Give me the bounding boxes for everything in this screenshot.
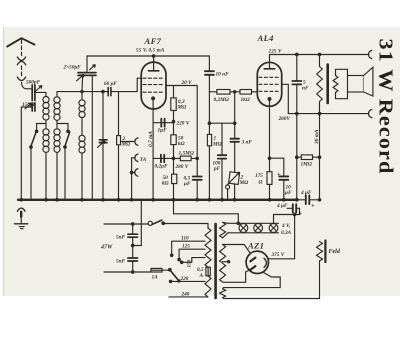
svg-text:31 W Record: 31 W Record: [375, 39, 396, 175]
wire mains line 1: [104, 223, 148, 225]
capacitor 4uF second: [287, 204, 300, 214]
label 220: [180, 276, 189, 282]
wire 5nF column to bus: [296, 114, 298, 200]
wire secondary to speaker: [336, 69, 348, 98]
AZ1 anode 1: [250, 258, 255, 262]
HV center tap: [223, 261, 230, 263]
AF7 anode plate: [148, 70, 158, 72]
svg-text:A: A: [199, 273, 204, 279]
AF7 grid 3 (dashed): [143, 91, 164, 93]
field coil Feld: [317, 242, 323, 262]
AL4 cathode: [268, 98, 271, 101]
label 3nF: [241, 140, 253, 146]
AL4 grid 2 (dashed): [259, 83, 280, 85]
AF7 cathode: [152, 97, 155, 100]
resistor 1MOhm bleeder: [297, 155, 320, 160]
svg-text:pF: pF: [213, 166, 221, 172]
label Feld: [329, 249, 341, 255]
svg-text:260V: 260V: [278, 116, 291, 122]
label 150 (rotated): [187, 259, 193, 267]
label 240: [181, 292, 190, 298]
label 125: [182, 244, 190, 250]
wire AF7 top cap: [152, 55, 155, 71]
svg-text:+: +: [277, 171, 281, 178]
label 110: [181, 236, 189, 242]
wire AF7 cathode to bus: [152, 98, 154, 199]
node mains line1 filter: [131, 223, 134, 226]
tuning capacitor C3b: [89, 73, 96, 76]
wire anode top line AF7: [87, 55, 209, 57]
wire screen 20V line: [166, 86, 197, 159]
svg-text:10 nF: 10 nF: [216, 72, 230, 78]
svg-text:2×50pF: 2×50pF: [63, 65, 82, 71]
resistor 50kOhm 2: [172, 174, 177, 183]
heater winding 4V: [220, 222, 228, 238]
node bleeder left: [296, 156, 299, 159]
AL4 anode plate: [264, 68, 274, 70]
resistor 0,3MOhm: [171, 98, 176, 111]
svg-text:220: 220: [180, 276, 189, 282]
fuse 1A: [151, 268, 162, 272]
svg-text:5nF: 5nF: [116, 235, 126, 241]
label 50kOhm 2: [162, 175, 169, 187]
svg-text:1kΩ: 1kΩ: [241, 97, 250, 103]
node coupling: [233, 91, 236, 94]
power transformer core: [214, 224, 217, 298]
wire band switch S2 tap: [57, 124, 68, 131]
jack TA top: [135, 138, 138, 145]
label plus 10uF: [277, 171, 281, 178]
wire AL4 cathode down: [269, 99, 271, 172]
AL4 grid 3 (dashed): [259, 90, 280, 92]
label 5nF: [302, 80, 309, 92]
label 10uF: [284, 185, 292, 197]
resistor 1MOhm grid: [207, 134, 211, 145]
label 4uF second: [276, 203, 288, 209]
wire Feld to bottom rail: [319, 261, 321, 299]
wire 3nF column: [234, 92, 236, 172]
wire switch to primary top: [163, 224, 208, 229]
wire fuse to selector arm: [162, 269, 169, 271]
label 1MOhm bleeder: [301, 162, 312, 168]
label 47W: [100, 245, 113, 251]
jack TA mid: [132, 154, 138, 161]
scan left edge: [3, 27, 5, 296]
wire band switch S1 tap: [37, 124, 46, 131]
svg-text:1A: 1A: [152, 275, 159, 281]
label 5nF filter 1: [116, 235, 126, 241]
speaker terminal bottom: [369, 110, 372, 118]
svg-text:μF: μF: [183, 181, 191, 187]
label plus first: [311, 203, 315, 210]
arrow tuning cap b: [90, 65, 96, 70]
potentiometer 2MOhm volume: [226, 172, 240, 189]
grid wire AF7: [57, 78, 141, 91]
svg-text:nF: nF: [302, 86, 309, 92]
tube AF7 envelope: [141, 62, 166, 109]
label 50kOhm screen: [178, 136, 185, 148]
svg-text:MΩ: MΩ: [212, 141, 222, 147]
svg-text:5nF: 5nF: [116, 259, 126, 265]
grid trimmer capacitor: [98, 140, 108, 148]
svg-text:150: 150: [187, 259, 193, 267]
output transformer primary: [317, 55, 323, 114]
trimmer capacitor 500pF: [32, 85, 42, 101]
label 280V: [175, 164, 189, 170]
bus junction dots: [20, 199, 298, 202]
svg-text:240: 240: [181, 292, 190, 298]
svg-text:1MΩ: 1MΩ: [301, 162, 312, 168]
AZ1 anode 2: [250, 266, 255, 270]
tap 125: [179, 249, 205, 259]
fuse 0,5A: [206, 267, 210, 276]
label 55V 0,5mA: [136, 48, 165, 54]
svg-text:1,5MΩ: 1,5MΩ: [179, 151, 194, 157]
svg-text:36 mA: 36 mA: [314, 129, 320, 145]
contact 110: [170, 254, 173, 256]
label 0,3MOhm: [177, 99, 187, 111]
svg-text:MΩ: MΩ: [239, 180, 249, 186]
svg-text:AF7: AF7: [144, 36, 162, 46]
wire antenna to C1: [22, 83, 32, 89]
svg-text:175: 175: [255, 173, 263, 179]
wire AL4 screen tap: [282, 84, 289, 113]
wire S2 to bus: [64, 148, 66, 200]
node top line primary: [318, 53, 321, 56]
AF7 grid 2 (dashed): [143, 84, 164, 86]
selector arm: [169, 268, 180, 282]
label 375V: [271, 252, 285, 258]
svg-text:47W: 47W: [100, 245, 113, 251]
wire top line to tuning cap: [86, 56, 88, 72]
label 31 W Record: [375, 39, 396, 175]
svg-text:0,2MΩ: 0,2MΩ: [214, 97, 229, 103]
wire coupling row: [209, 91, 257, 93]
field coil core: [324, 241, 326, 263]
capacitor 10uF: [279, 176, 288, 199]
capacitor 0,5uF: [193, 158, 202, 199]
wire anode top line AL4: [270, 54, 369, 56]
wire antenna lead-in (dashed): [21, 40, 23, 56]
power transformer primary lower: [205, 276, 211, 297]
label 1MOhm grid: [212, 136, 222, 148]
wire filter midpoint to chassis: [133, 200, 142, 246]
label 4V 0,3A: [281, 223, 292, 236]
band switch S1: [30, 130, 38, 148]
label 260V: [278, 116, 291, 122]
tap 220: [171, 280, 205, 282]
node jumper right: [233, 122, 236, 125]
label 1,5MOhm: [179, 151, 194, 157]
node rail: [237, 222, 240, 225]
wire arrester to coupler (dashed): [21, 66, 23, 76]
node grid line / trimmer: [102, 90, 105, 93]
capacitor 100pF: [218, 155, 227, 158]
earth ground: [15, 224, 28, 229]
wire 375V riser row: [274, 215, 300, 259]
node 280V row left: [172, 157, 175, 160]
capacitor 5nF line filter 2: [128, 258, 138, 261]
label 150pF: [22, 102, 37, 108]
label 220V: [176, 120, 190, 126]
svg-text:375 V: 375 V: [271, 252, 285, 258]
capacitor 5nF anode: [292, 55, 301, 114]
wire C3a to L3: [81, 76, 84, 92]
wire 100pF column: [221, 123, 223, 200]
wire AZ1 output 375V: [269, 258, 295, 260]
svg-text:110: 110: [181, 236, 189, 242]
node AL4 cathode tap: [268, 157, 271, 160]
wire AL4 top cap: [269, 55, 271, 69]
svg-text:AL4: AL4: [257, 33, 274, 43]
wire grid trimmer column: [102, 92, 104, 200]
node 260V 5nF: [296, 112, 299, 115]
label 500pF: [26, 80, 41, 86]
svg-text:Ω: Ω: [259, 180, 263, 186]
label 5nF filter 2: [116, 259, 126, 265]
resistor 1kOhm: [240, 90, 252, 95]
wire C3b to bus: [91, 76, 93, 200]
svg-text:225 V: 225 V: [268, 48, 283, 54]
arrow tuning cap a: [77, 75, 84, 81]
wire 50k to 280V row: [173, 145, 175, 175]
label 0,2MOhm: [214, 97, 229, 103]
trimmer capacitor 150pF: [25, 103, 35, 111]
label 175 Ohm: [255, 173, 263, 186]
wire L2 top riser: [56, 92, 58, 97]
node 220V: [172, 120, 175, 123]
wire line-filter column: [132, 224, 134, 272]
svg-text:60 pF: 60 pF: [104, 81, 117, 87]
wire TA link: [131, 158, 133, 173]
wire TA to bus: [131, 173, 133, 200]
wire 175 to bus: [269, 184, 271, 199]
label 20V: [181, 80, 193, 86]
svg-text:kΩ: kΩ: [162, 181, 169, 187]
wire mains line 2: [104, 271, 151, 273]
wire C2 to ground column: [21, 107, 32, 200]
wire 260V line: [288, 113, 368, 115]
label 0,7mA (rotated): [148, 131, 154, 147]
resistor 175 Ohm: [267, 172, 272, 185]
tap 150: [182, 258, 205, 263]
resistor 0,2MOhm: [217, 90, 230, 95]
rectifier heater winding: [220, 289, 226, 298]
speaker: [348, 67, 373, 96]
power transformer primary upper: [205, 228, 211, 267]
wire 1MOhm column: [208, 92, 210, 200]
dial lamp 3: [269, 224, 278, 233]
wire HV bottom to anode: [223, 270, 249, 282]
capacitor 1uF: [153, 119, 173, 127]
coil L3 upper: [79, 100, 85, 118]
svg-text:Feld: Feld: [329, 249, 341, 255]
label 100pF: [213, 161, 221, 173]
node filter midpoint: [131, 244, 134, 247]
grid coil L2 upper: [54, 97, 60, 121]
node top line 5nF: [296, 53, 299, 56]
dial lamp 1: [239, 224, 248, 233]
wire ground to HV center area: [174, 200, 239, 224]
svg-text:3 nF: 3 nF: [241, 140, 253, 146]
tuning capacitor C3a: [78, 73, 87, 76]
label 10nF: [216, 72, 230, 78]
svg-text:20 V: 20 V: [181, 80, 193, 86]
svg-text:MΩ: MΩ: [121, 141, 131, 147]
wire S1 to bus: [30, 148, 32, 200]
wire C1 to antenna coil: [35, 92, 46, 96]
chassis-earth gap: [17, 208, 25, 223]
output transformer core: [326, 65, 329, 104]
band switch S2: [64, 130, 70, 148]
svg-text:TA: TA: [140, 157, 147, 163]
label plus second: [299, 211, 303, 218]
coil L3 lower: [79, 135, 85, 153]
capacitor 0,2uF: [161, 155, 164, 163]
contact 125: [178, 258, 181, 261]
antenna: [7, 38, 34, 46]
wire AZ1 filament return: [223, 273, 281, 289]
AF7 grid 1 (dashed): [143, 77, 164, 79]
label 0,5A: [197, 267, 204, 279]
wire L2 to bus: [56, 153, 58, 200]
svg-text:125: 125: [182, 244, 190, 250]
contact 220: [169, 280, 172, 283]
tap 240: [169, 296, 208, 298]
svg-text:0,3A: 0,3A: [281, 230, 292, 236]
wire cathode to 10uF: [270, 158, 284, 176]
capacitor 60pF: [108, 88, 111, 96]
svg-text:μF: μF: [284, 190, 292, 196]
svg-text:1μF: 1μF: [158, 128, 168, 134]
svg-text:4 μF: 4 μF: [276, 203, 288, 209]
svg-text:0,2μF: 0,2μF: [155, 164, 169, 170]
antenna coupling electrode: [17, 77, 25, 81]
wire L3 link: [81, 118, 83, 136]
wire pot to bus: [228, 184, 235, 200]
lamp rail bottom: [228, 232, 279, 234]
label 4uF first: [300, 190, 312, 196]
label 36mA (rotated): [314, 129, 320, 145]
svg-text:+: +: [311, 203, 315, 210]
node 280V row right: [196, 157, 199, 160]
wire L3 riser to grid line: [81, 90, 83, 99]
lamp rail top: [228, 222, 279, 224]
output transformer secondary: [333, 76, 338, 93]
grid coil L2 lower: [54, 129, 60, 153]
label TA: [140, 157, 147, 163]
capacitor 4uF first: [297, 196, 320, 205]
label AF7: [144, 36, 162, 46]
wire L1 link: [45, 121, 47, 129]
node bleeder right: [318, 156, 321, 159]
speaker terminal top: [369, 50, 372, 58]
label pot 2MOhm: [239, 175, 249, 187]
tap 110: [172, 241, 205, 255]
wire 50k2 to bus: [173, 184, 175, 200]
ground bus: [18, 199, 297, 201]
contact 150: [180, 261, 183, 264]
node TA: [130, 171, 133, 174]
resistor 1,5MOhm: [180, 156, 191, 161]
label 60pF: [104, 81, 117, 87]
label 225V: [268, 48, 283, 54]
antenna coil L1 lower: [43, 129, 49, 153]
wire 2MOhm to TA jack: [121, 141, 135, 143]
tube AZ1 envelope: [246, 251, 268, 273]
label AZ1: [247, 241, 264, 251]
node 260V primary: [318, 112, 321, 115]
svg-text:4 V,: 4 V,: [281, 223, 290, 229]
wire jumper row: [209, 122, 234, 124]
svg-text:220 V: 220 V: [176, 120, 190, 126]
node mains line2 filter: [131, 271, 134, 274]
label 1kOhm: [241, 97, 250, 103]
wire L3 to bus: [81, 154, 83, 200]
resistor 2MOhm grid leak: [117, 136, 121, 145]
wire 0,3M to 220V node: [173, 111, 175, 135]
lightning arrester spark gap: [17, 57, 25, 65]
node jumper left: [208, 122, 211, 125]
node riser row: [293, 213, 296, 216]
tube AL4 envelope: [257, 62, 281, 106]
label AL4: [257, 33, 274, 43]
resistor 50kOhm screen: [171, 135, 176, 145]
node Feld top: [318, 199, 321, 202]
label 1uF: [158, 128, 168, 134]
wire L2 link: [56, 121, 58, 129]
label 2x50pF: [63, 65, 82, 71]
svg-text:0,7 mA: 0,7 mA: [148, 131, 154, 147]
row 280V: [153, 157, 197, 159]
label 0,2uF: [155, 164, 169, 170]
svg-text:500pF: 500pF: [26, 80, 41, 86]
dial lamp 2: [254, 224, 263, 233]
capacitor 10nF: [205, 56, 214, 92]
antenna coil L1 upper: [43, 97, 49, 121]
wire bottom rail: [223, 298, 320, 299]
svg-text:4 μF: 4 μF: [300, 190, 312, 196]
svg-text:AZ1: AZ1: [247, 241, 264, 251]
jack TA bottom: [132, 169, 138, 176]
wire B+ feed line: [319, 114, 321, 200]
AL4 grid 1 (dashed): [259, 76, 280, 78]
svg-text:MΩ: MΩ: [177, 105, 187, 111]
svg-text:kΩ: kΩ: [178, 141, 185, 147]
capacitor 5nF line filter 1: [128, 234, 138, 237]
wire HV top to anode: [223, 245, 250, 253]
svg-text:55 V, 0,5 mA: 55 V, 0,5 mA: [136, 48, 165, 54]
wire L1 to bus: [45, 153, 47, 200]
svg-text:280 V: 280 V: [175, 164, 189, 170]
label 0,5uF: [183, 176, 191, 188]
capacitor 3nF: [230, 139, 239, 142]
label 1A: [152, 275, 159, 281]
mains switch: [148, 220, 164, 225]
wire 2MOhm column: [118, 92, 120, 200]
HV winding: [220, 245, 226, 283]
AZ1 filament: [264, 258, 266, 267]
label 2MOhm: [121, 136, 131, 148]
